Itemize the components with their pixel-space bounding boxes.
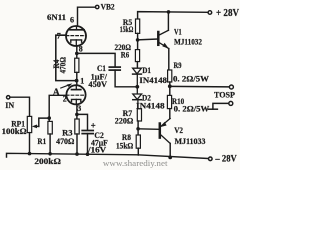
svg-text:100kΩ: 100kΩ [2, 126, 27, 136]
wire output to terminal [170, 85, 230, 88]
terminal SP return stub [209, 101, 233, 109]
wire pin7 to lower plate [56, 35, 75, 80]
svg-text:470Ω: 470Ω [56, 136, 74, 146]
resistor R10 [167, 95, 171, 118]
terminal -28V [209, 157, 213, 161]
svg-text:R1: R1 [37, 136, 46, 146]
svg-text:450V: 450V [88, 79, 107, 89]
node A arrow [61, 83, 73, 88]
node output junction [168, 84, 172, 88]
node pin1 junction [75, 79, 79, 83]
wire pin3 to R3 [76, 104, 78, 119]
wire bottom rail [7, 153, 211, 158]
wire V1 collector [167, 12, 169, 30]
svg-text:+: + [91, 121, 96, 131]
svg-text:V2: V2 [174, 125, 183, 135]
svg-text:15kΩ: 15kΩ [120, 24, 134, 34]
svg-text:1: 1 [80, 77, 84, 86]
triode V3b (bottom half of 6N11) [66, 85, 85, 104]
svg-text:200kΩ: 200kΩ [34, 156, 61, 166]
node wiper junction [47, 116, 51, 120]
svg-text:15kΩ: 15kΩ [116, 141, 133, 151]
terminal IN [7, 96, 10, 99]
svg-text:6N11: 6N11 [47, 12, 66, 22]
svg-text:0. 2Ω/5W: 0. 2Ω/5W [173, 73, 209, 83]
capacitor C1 [109, 67, 120, 70]
wire +28V top rail [138, 12, 208, 19]
wire IN to RP1 [10, 97, 30, 116]
resistor R9 [168, 70, 172, 95]
svg-text:MJ11033: MJ11033 [175, 136, 206, 146]
svg-text:A: A [53, 87, 61, 98]
terminal VB2 [96, 5, 99, 8]
wire grid to node A column [49, 95, 66, 121]
wire V1 emitter to R9 [168, 49, 170, 70]
wire V2 base [138, 128, 159, 131]
svg-text:MJ11032: MJ11032 [174, 37, 202, 47]
wire C1 to diode midpoint [115, 70, 137, 87]
node rail RP1 [28, 152, 32, 156]
node rail R3 [75, 152, 79, 156]
wire V1 base [138, 38, 158, 41]
diode D2 [133, 87, 142, 109]
resistor R3 [75, 119, 79, 154]
resistor R4 [75, 58, 79, 85]
node rail V2 collector [168, 156, 172, 160]
terminal +28V [208, 11, 212, 15]
resistor R7 [137, 109, 141, 135]
svg-text:+ 28V: + 28V [216, 8, 240, 19]
resistor R6 [135, 50, 139, 68]
node rail R1 [48, 152, 52, 156]
diode D1 [133, 68, 142, 87]
node rail C2 [86, 152, 90, 156]
resistor R5 [136, 19, 140, 50]
wire pin8 output to C1 [77, 53, 115, 66]
transistor V1 (NPN) [158, 30, 169, 48]
triode V3a (top half of 6N11) [66, 26, 86, 46]
svg-text:/16V: /16V [87, 144, 107, 154]
wire VB2 feed [78, 7, 96, 26]
terminal TOSP [229, 85, 233, 89]
svg-text:R9: R9 [174, 60, 182, 70]
svg-text:IN4148: IN4148 [139, 75, 167, 85]
node V2 base junction [136, 127, 140, 131]
node cathode junction [75, 113, 79, 117]
svg-text:470Ω: 470Ω [59, 57, 68, 74]
svg-text:6: 6 [70, 15, 74, 24]
node V1 base junction [136, 38, 140, 42]
svg-text:3: 3 [77, 104, 81, 113]
svg-text:8: 8 [79, 45, 83, 54]
svg-text:VB2: VB2 [101, 2, 115, 12]
node pin8 junction [75, 52, 79, 56]
resistor R8 [136, 135, 140, 155]
svg-text:220Ω: 220Ω [115, 116, 134, 126]
svg-text:www.sharediy.net: www.sharediy.net [103, 159, 168, 168]
svg-text:– 28V: – 28V [214, 153, 237, 163]
svg-text:R6: R6 [121, 50, 130, 60]
wire pin8 to R4 [76, 46, 78, 58]
wire RP1 wiper [32, 118, 49, 128]
potentiometer RP1 [27, 116, 31, 153]
svg-text:V1: V1 [174, 26, 182, 36]
resistor R1 [48, 121, 52, 153]
wire V2 collector down [169, 143, 171, 157]
node diode midpoint [135, 85, 139, 89]
svg-text:0. 2Ω/5W: 0. 2Ω/5W [174, 104, 210, 114]
svg-text:D1: D1 [142, 65, 151, 75]
capacitor C2 [82, 131, 93, 155]
wire junction to C2 [77, 114, 88, 130]
node V1 collector rail junction [167, 10, 171, 14]
transistor V2 (PNP) [160, 118, 170, 143]
svg-text:IN: IN [5, 100, 15, 110]
svg-text:TOSP: TOSP [214, 90, 236, 100]
